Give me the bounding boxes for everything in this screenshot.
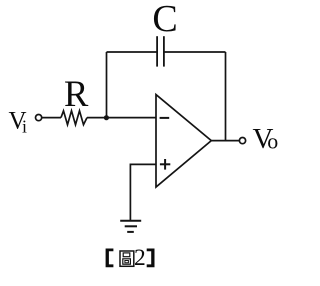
wire non-inverting input to ground xyxy=(130,164,156,220)
caption right bracket xyxy=(147,249,155,268)
caption left bracket xyxy=(106,249,114,268)
resistor R xyxy=(61,111,87,125)
wire feedback top-left horizontal xyxy=(107,51,158,53)
wire feedback right vertical xyxy=(225,52,227,141)
label Vo xyxy=(253,123,279,155)
svg-text:2: 2 xyxy=(134,245,146,271)
wire resistor to op-amp inverting input xyxy=(87,117,156,119)
op-amp minus sign xyxy=(160,117,170,119)
svg-text:i: i xyxy=(22,116,27,136)
wire feedback top-right horizontal xyxy=(164,51,226,53)
wire input to resistor xyxy=(42,117,61,119)
capacitor C xyxy=(157,36,164,66)
wire feedback left vertical xyxy=(106,52,108,118)
label Vi xyxy=(9,108,28,137)
op-amp U1 triangle xyxy=(156,95,211,187)
svg-text:C: C xyxy=(152,0,177,40)
svg-text:R: R xyxy=(64,73,89,114)
op-amp plus sign xyxy=(160,159,170,170)
caption glyph tu (figure) xyxy=(120,251,134,266)
node junction dot xyxy=(104,115,109,120)
input terminal circle xyxy=(36,115,42,121)
svg-text:o: o xyxy=(267,129,278,154)
wire op-amp output xyxy=(211,140,239,142)
output terminal circle xyxy=(239,138,245,144)
ground xyxy=(120,221,141,232)
